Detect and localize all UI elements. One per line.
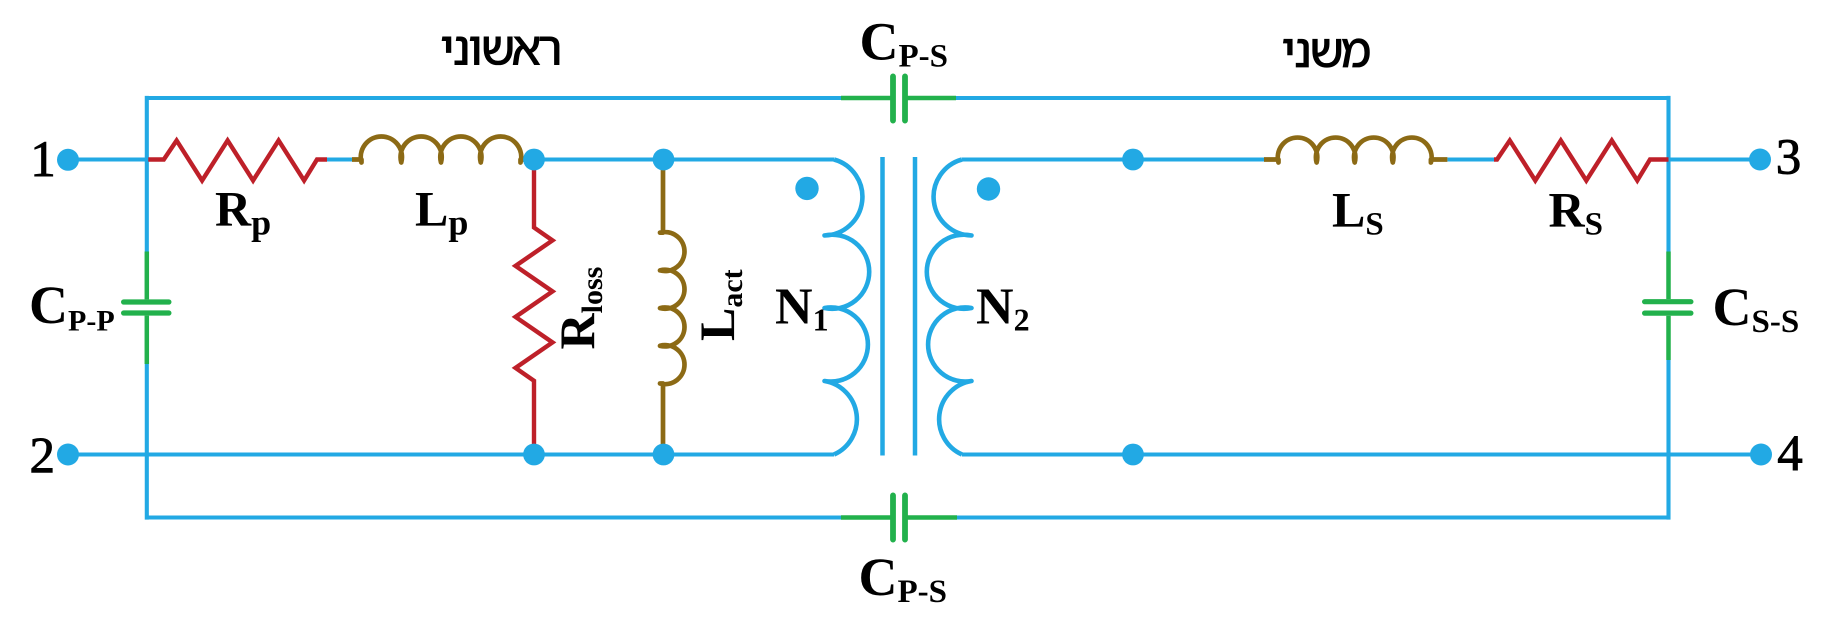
svg-text:3: 3 xyxy=(1776,130,1802,186)
svg-text:2: 2 xyxy=(30,428,56,484)
svg-text:1: 1 xyxy=(30,132,56,188)
svg-text:4: 4 xyxy=(1777,426,1803,482)
